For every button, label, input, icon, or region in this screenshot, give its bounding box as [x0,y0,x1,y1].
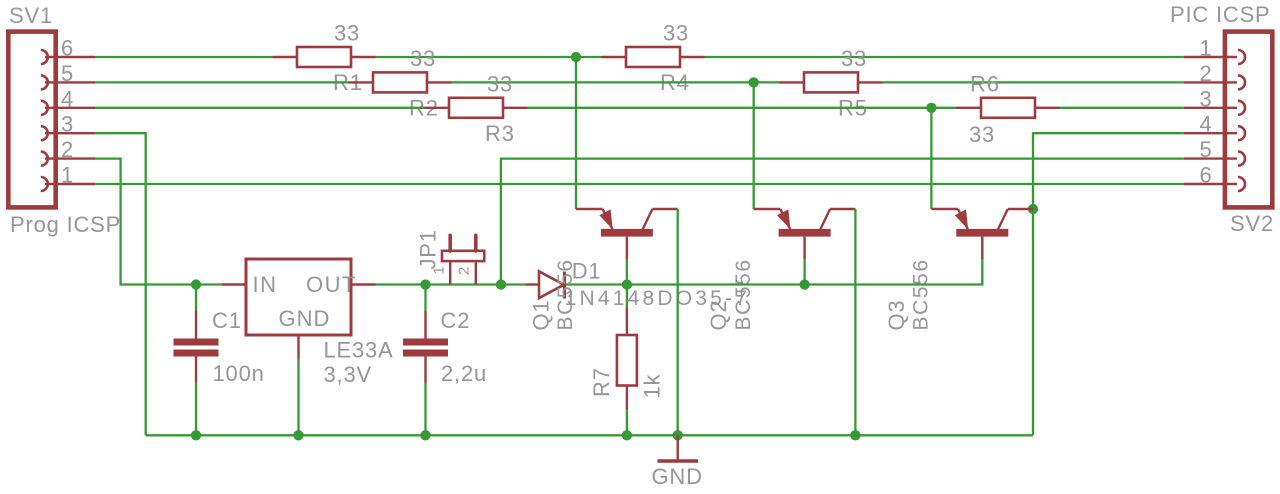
wire Q2 base to 3v3 wire [803,259,805,285]
voltage regulator IC1 LE33A body [246,259,351,335]
svg-text:4: 4 [61,86,74,111]
svg-text:2: 2 [61,137,74,162]
junction node Q1 base / R7 [622,279,632,289]
svg-text:IN: IN [253,272,278,297]
svg-text:R6: R6 [970,71,1000,96]
svg-text:6: 6 [61,36,74,61]
resistor R7 1k (vertical) [617,285,637,436]
junction node rail/R7 [622,430,632,440]
svg-text:SV1: SV1 [9,3,53,28]
wire Q3 base to 3v3 wire [805,259,983,285]
wire Q3 emitter drop [930,108,932,209]
wire Q1 collector to GND rail [677,209,679,435]
wire line1 R1 to R4 [376,56,602,58]
svg-text:PIC ICSP: PIC ICSP [1170,2,1271,27]
svg-text:1: 1 [61,163,74,188]
junction node line1/Q1 emitter [571,52,581,62]
wire SV1.2 to regulator IN [95,159,222,285]
svg-text:5: 5 [1200,137,1213,162]
svg-text:1: 1 [431,265,448,274]
wire line1 SV1.6 to R1 [95,56,273,58]
junction node 3v3 riser [496,279,506,289]
capacitor C2 [403,285,448,436]
SV1 pin 6 (top) [41,50,95,64]
svg-text:SV2: SV2 [1230,211,1274,236]
svg-text:33: 33 [969,122,995,147]
svg-text:C2: C2 [441,308,471,333]
svg-text:2,2u: 2,2u [441,361,487,386]
junction node rail/C1 [191,430,201,440]
svg-text:33: 33 [487,71,513,96]
svg-text:GND: GND [652,464,703,489]
junction node rail/Q1 collector/GND symbol [673,430,683,440]
svg-text:R7: R7 [589,367,614,397]
wire line2 SV1.5 to R2 [95,81,349,83]
svg-text:33: 33 [334,21,360,46]
wire line3 SV1.4 to R3 [95,107,425,109]
svg-text:6: 6 [1200,163,1213,188]
IC1 pin OUT stub [351,283,376,285]
wire D1 to Q1 base node [566,283,627,285]
capacitor C1 [174,285,219,436]
svg-text:OUT: OUT [306,272,357,297]
junction node line2/Q2 emitter [749,77,759,87]
wire SV1.3 to GND drop [95,133,146,435]
wire Q2 emitter drop [753,82,755,209]
svg-text:100n: 100n [213,361,265,386]
IC1 pin GND stub [297,335,299,360]
wire 3v3 node to D1 [501,283,526,285]
svg-text:1k: 1k [640,373,665,398]
junction node rail/C2 [420,430,430,440]
junction node line3/Q3 emitter [926,103,936,113]
IC1 pin IN stub [222,283,246,285]
svg-text:33: 33 [663,21,689,46]
svg-text:C1: C1 [212,308,242,333]
resistor R1 [273,47,376,67]
svg-text:3: 3 [61,112,74,137]
SV1 pin 2 [41,152,95,166]
wire line3 R3 to R6 [528,107,957,109]
SV1 pin 5 [41,75,95,89]
resistor R5 [780,72,883,92]
SV2 pin 6 [1184,177,1245,191]
wire line6 SV1.1 to SV2.6 [95,183,1184,185]
svg-text:JP1: JP1 [416,229,441,269]
wire 3v3 Q1 node to Q2 node [627,283,805,285]
junction node Q2 base [799,279,809,289]
svg-text:BC556: BC556 [732,258,755,330]
SV1 pin 3 [41,126,95,140]
GND rail wire [146,434,1033,436]
transistor Q1 BC556 [576,209,678,259]
transistor Q3 BC556 [931,209,1033,259]
SV2 pin 3 [1184,101,1245,115]
SV1 pin 4 [41,101,95,115]
SV1 pin 1 [41,177,95,191]
wire line3 R6 to SV2.3 [1060,107,1184,109]
junction node Q3 collector / SV2.4 [1028,204,1038,214]
svg-text:33: 33 [410,46,436,71]
svg-text:3: 3 [1200,86,1213,111]
diode D1 1N4148 [526,271,565,298]
junction node rail/IC1 GND [293,430,303,440]
junction node rail/Q2 collector [850,430,860,440]
wire Q1 emitter drop [575,57,577,209]
wire Q1 base to node [626,259,628,285]
wire IC1 GND to rail [297,360,299,436]
resistor R3 [425,98,528,118]
transistor Q2 BC556 [754,209,856,259]
SV2 pin 5 [1184,152,1245,166]
SV2 pin 2 [1184,75,1245,89]
resistor R2 [349,72,452,92]
svg-text:2: 2 [456,266,473,275]
junction node reg IN / C1 [191,279,201,289]
svg-text:BC556: BC556 [910,258,933,330]
wire line2 R5 to SV2.2 [883,81,1184,83]
SV2 pin 1 (top) [1184,50,1245,64]
ground symbol GND [658,435,699,461]
resistor R4 [602,47,705,67]
svg-text:R3: R3 [485,121,515,146]
svg-text:Q2: Q2 [706,300,731,331]
resistor R6 [957,98,1060,118]
connector SV2 body [1225,32,1272,208]
svg-text:BC556: BC556 [554,258,577,330]
svg-text:4: 4 [1200,112,1213,137]
wire Q2 collector to GND rail [854,209,856,435]
wire line1 R4 to SV2.1 [705,56,1184,58]
svg-text:LE33A: LE33A [324,338,394,363]
wire 3v3 riser to line5 SV2.5 [501,159,1184,285]
svg-text:3,3V: 3,3V [324,362,372,387]
svg-text:5: 5 [61,61,74,86]
svg-text:Q1: Q1 [528,300,553,331]
svg-text:Q3: Q3 [884,300,909,331]
svg-text:1: 1 [1200,36,1213,61]
wire line2 R2 to R5 [452,81,780,83]
svg-text:Prog ICSP: Prog ICSP [10,212,121,237]
SV2 pin 4 [1184,126,1245,140]
svg-text:2: 2 [1200,61,1213,86]
junction node C2/3v3 [420,279,430,289]
connector SV1 body [8,32,55,208]
wire IC1 OUT to JP1/C2 node [376,283,502,285]
wire SV2.4 to Q3 collector and GND rail [1033,133,1184,435]
svg-text:33: 33 [841,46,867,71]
svg-text:GND: GND [279,306,331,331]
jumper JP1 [442,235,484,284]
